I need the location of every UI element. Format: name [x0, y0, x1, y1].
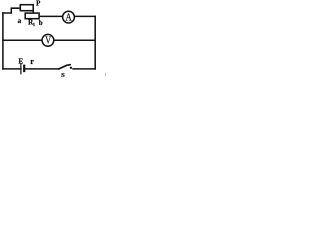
rheostat R1 slider stem	[32, 11, 34, 12]
battery long plate (E)	[20, 63, 22, 74]
voltmeter V	[42, 34, 54, 46]
svg-text:P: P	[36, 0, 41, 8]
switch contact dot	[70, 67, 72, 69]
wire left edge	[2, 13, 4, 69]
wire battery to switch	[26, 68, 59, 70]
rheostat R1 slider bar (upper box)	[20, 5, 33, 11]
wire middle rail right (voltmeter to right edge)	[54, 39, 95, 41]
wire top-left step to rheostat	[3, 8, 20, 13]
svg-text:S: S	[61, 72, 65, 79]
wire switch to right corner	[73, 68, 95, 70]
svg-text:r: r	[30, 57, 34, 66]
svg-text:a: a	[18, 17, 22, 25]
switch S blade	[59, 65, 70, 69]
svg-text:E: E	[18, 58, 23, 66]
resistor R1 body (lower box)	[25, 13, 39, 19]
svg-text:V: V	[45, 36, 51, 47]
svg-text:A: A	[65, 13, 72, 24]
stray faint mark bottom-right	[105, 73, 106, 76]
wire middle rail left (to voltmeter)	[3, 39, 42, 41]
wire ammeter to right edge	[75, 15, 95, 17]
battery short plate	[23, 65, 25, 73]
wire R1 b terminal to ammeter	[40, 15, 62, 17]
svg-text:b: b	[39, 19, 43, 27]
ammeter A	[63, 11, 75, 23]
wire right edge	[94, 16, 96, 69]
wire bottom rail left (to battery)	[3, 68, 21, 70]
